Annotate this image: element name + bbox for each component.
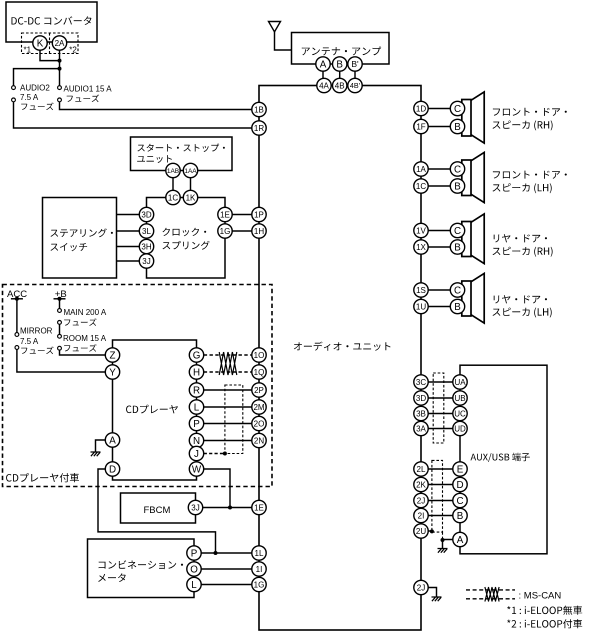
svg-text:Y: Y <box>109 368 116 379</box>
shield dashed box AUX <box>432 460 443 532</box>
connector 3J clock spring <box>139 254 153 268</box>
label rear door speaker LH line1 <box>494 295 547 303</box>
svg-text:1C: 1C <box>168 193 178 202</box>
svg-text:AUDIO1 15 A: AUDIO1 15 A <box>64 85 113 94</box>
svg-text:UD: UD <box>454 424 466 433</box>
connector 1B audio unit left <box>252 102 266 116</box>
label antenna amp <box>302 47 381 56</box>
connector D AUX box <box>453 477 467 491</box>
connector W <box>189 462 203 476</box>
wire 2J to ground <box>428 588 436 598</box>
wire 1AA to 1K <box>190 178 192 191</box>
legend note 1 i-ELOOP <box>507 606 582 615</box>
svg-text:UB: UB <box>454 394 465 403</box>
connector Bp antenna amp <box>348 57 362 71</box>
label start-stop line2 <box>137 155 172 163</box>
connector 3J FBCM <box>188 500 202 514</box>
svg-text:3J: 3J <box>191 503 199 512</box>
svg-text:B: B <box>454 122 461 133</box>
connector L meter <box>187 577 201 591</box>
power node +B <box>54 289 67 301</box>
connector 1R audio unit left <box>252 121 266 135</box>
wire A AUX to ground <box>443 540 453 549</box>
connector P meter <box>187 546 201 560</box>
svg-text:J: J <box>194 449 199 460</box>
connector 2L audio unit right <box>414 462 428 476</box>
svg-text:P: P <box>193 419 200 430</box>
connector B speaker <box>450 240 464 254</box>
label rear door speaker LH line2 <box>493 308 552 318</box>
svg-text:D: D <box>109 465 116 476</box>
junction node branch <box>58 67 62 71</box>
svg-text:1X: 1X <box>416 243 426 252</box>
wire MAIN to ROOM fuse <box>59 324 61 334</box>
connector H <box>189 365 203 379</box>
combination meter box <box>88 539 195 598</box>
junction node shield/A ground <box>441 538 445 542</box>
wire P to 1L <box>201 552 252 554</box>
wire D to combination meter net <box>98 469 216 553</box>
connector 1K clock spring <box>183 190 197 204</box>
connector 3H <box>139 239 153 253</box>
wire 2L to E <box>428 468 453 470</box>
svg-text:P: P <box>191 549 198 560</box>
wire B to 4B <box>339 71 341 78</box>
connector 1F audio unit right <box>414 119 428 133</box>
fuse AUDIO2 7.5A <box>12 86 16 90</box>
connector 1G clock spring <box>218 224 232 238</box>
svg-text:FBCM: FBCM <box>144 505 171 516</box>
svg-text:7.5 A: 7.5 A <box>20 337 39 346</box>
label combination meter line1 <box>99 560 184 569</box>
fuse MIRROR 7.5A <box>15 333 19 337</box>
svg-text:W: W <box>192 465 202 476</box>
connector 1AB <box>166 163 180 177</box>
svg-text:ROOM 15 A: ROOM 15 A <box>63 334 107 343</box>
DC-DC connector dashed outline <box>22 33 79 54</box>
connector O meter <box>187 562 201 576</box>
speaker rear door speaker RH <box>462 214 484 264</box>
connector B antenna amp <box>333 57 347 71</box>
svg-text:2U: 2U <box>416 527 426 536</box>
label fuse MIRROR <box>21 347 53 355</box>
svg-text:3D: 3D <box>416 394 426 403</box>
connector 2N audio unit left <box>252 433 266 447</box>
connector 1C clock spring <box>166 190 180 204</box>
power node ACC <box>7 289 27 301</box>
svg-text:UC: UC <box>454 409 466 418</box>
node 2U shield drain <box>430 529 434 533</box>
connector D CD player <box>105 462 119 476</box>
connector UC AUX box <box>453 406 467 420</box>
wire branch junction to AUDIO2 fuse <box>14 69 60 86</box>
svg-text:C: C <box>456 496 463 507</box>
ground 2J <box>432 597 442 601</box>
connector B speaker <box>450 119 464 133</box>
connector C speaker <box>450 283 464 297</box>
connector UA AUX box <box>453 375 467 389</box>
svg-text:B: B <box>454 243 461 254</box>
junction node D/P/1L <box>214 551 218 555</box>
connector 1E clock spring <box>218 207 232 221</box>
svg-text:Z: Z <box>110 351 116 362</box>
svg-text:B: B <box>457 511 464 522</box>
wire 1E to 1P <box>232 214 252 216</box>
svg-text:C: C <box>454 226 461 237</box>
connector G <box>189 348 203 362</box>
svg-text:1AA: 1AA <box>184 168 197 175</box>
wire 2J to C <box>428 500 453 502</box>
connector 3L <box>139 224 153 238</box>
connector 2I audio unit right <box>414 508 428 522</box>
CD player section dashed border <box>3 285 273 487</box>
wire 1U to speaker B <box>428 306 450 308</box>
connector C AUX box <box>453 493 467 507</box>
svg-text:1A: 1A <box>416 165 426 174</box>
connector 1I audio unit left <box>252 562 266 576</box>
connector Y <box>105 365 119 379</box>
wire P to 2O <box>204 423 252 425</box>
svg-text:2I: 2I <box>418 511 425 520</box>
label fuse MAIN <box>64 318 96 326</box>
wire +B to MAIN fuse <box>59 299 61 309</box>
speaker front door speaker LH <box>462 152 484 202</box>
wire 1V to speaker C <box>428 230 450 232</box>
svg-text:1P: 1P <box>254 210 264 219</box>
label fuse ROOM <box>64 344 96 352</box>
svg-text:1L: 1L <box>255 549 264 558</box>
svg-text:: MS-CAN: : MS-CAN <box>519 590 562 601</box>
connector 2P audio unit left <box>252 383 266 397</box>
svg-text:C: C <box>454 104 461 115</box>
svg-text:2K: 2K <box>416 480 426 489</box>
connector P CD player <box>189 416 203 430</box>
wire 1S to speaker C <box>428 289 450 291</box>
wire H to 1Q MS-CAN <box>204 371 252 373</box>
svg-text:2J: 2J <box>417 583 425 592</box>
connector 4Bp audio unit top <box>348 78 362 92</box>
connector 3A audio unit right <box>414 421 428 435</box>
connector 2J audio unit right <box>414 493 428 507</box>
wire 3C to UA <box>428 381 453 383</box>
wire AUDIO2 fuse to 1R <box>14 102 253 128</box>
svg-text:2A: 2A <box>55 39 65 48</box>
wire shield to ground net <box>442 532 444 540</box>
connector 1L audio unit left <box>252 546 266 560</box>
connector 2O audio unit left <box>252 416 266 430</box>
svg-text:1D: 1D <box>416 104 426 113</box>
svg-text:B: B <box>454 302 461 313</box>
svg-text:1E: 1E <box>254 503 264 512</box>
ground CD player A <box>91 452 101 456</box>
FBCM box <box>121 493 196 523</box>
CD player box <box>113 340 197 480</box>
label steering line2 <box>51 243 88 251</box>
junction node W/3J/1E <box>228 506 232 510</box>
wire 1X to speaker B <box>428 246 450 248</box>
connector 1E audio unit left <box>252 500 266 514</box>
label clock spring line2 <box>163 241 210 250</box>
label front door speaker RH line2 <box>493 120 553 130</box>
connector 1S audio unit right <box>414 283 428 297</box>
legend twisted pair symbol <box>485 587 499 602</box>
wire ACC to MIRROR fuse <box>16 299 18 333</box>
connector 3B audio unit right <box>414 406 428 420</box>
junction node K/2A <box>58 59 62 63</box>
connector 1AA <box>183 163 197 177</box>
label rear door speaker RH line2 <box>493 247 553 257</box>
connector 3C audio unit right <box>414 375 428 389</box>
svg-text:3H: 3H <box>141 242 151 251</box>
DC-DC converter unit box <box>6 2 97 42</box>
svg-text:2M: 2M <box>253 403 264 412</box>
wire steering to 3D <box>117 214 140 216</box>
connector 1C audio unit right <box>414 179 428 193</box>
label front door speaker RH line1 <box>493 108 567 116</box>
wire AUDIO1 fuse to 1B <box>60 102 253 110</box>
connector 2J audio unit bottom <box>414 580 428 594</box>
wire 1D to speaker C <box>428 108 450 110</box>
svg-text:O: O <box>190 565 198 576</box>
speaker front door speaker RH <box>462 92 484 143</box>
steering switch box <box>43 198 117 279</box>
wire MIRROR fuse to Y <box>17 349 105 372</box>
antenna symbol <box>269 22 292 51</box>
svg-text:4B: 4B <box>335 81 345 90</box>
connector 1D audio unit right <box>414 101 428 115</box>
svg-text:UA: UA <box>454 378 466 387</box>
ground AUX A <box>438 549 448 553</box>
label front door speaker LH line2 <box>493 183 552 193</box>
fuse ROOM 15A <box>58 334 62 338</box>
svg-text:1K: 1K <box>186 193 196 202</box>
label AUX/USB terminal <box>471 453 530 462</box>
svg-text:4A: 4A <box>319 81 329 90</box>
svg-text:2N: 2N <box>254 436 264 445</box>
svg-text:2L: 2L <box>417 465 426 474</box>
connector B AUX box <box>453 508 467 522</box>
wire 1AB to 1C <box>172 178 174 191</box>
label CD player section <box>6 473 79 482</box>
wire ROOM fuse to Z <box>60 350 106 355</box>
connector 2U audio unit right <box>414 524 428 538</box>
wire G to 1O MS-CAN <box>204 354 252 356</box>
wire 2U to shield drain <box>428 530 432 532</box>
wire 1G to 1H <box>232 230 252 232</box>
start-stop unit box <box>131 137 233 171</box>
wire steering to 3J <box>117 260 140 262</box>
svg-text:G: G <box>193 351 201 362</box>
svg-text:N: N <box>193 436 200 447</box>
wire Bp to 4Bp <box>354 71 356 78</box>
label fuse AUDIO2 <box>21 103 53 111</box>
wire R to 2P <box>204 389 252 391</box>
svg-text:AUDIO2: AUDIO2 <box>20 83 50 92</box>
svg-text:2J: 2J <box>417 496 425 505</box>
node J shield drain <box>223 452 227 456</box>
svg-text:1Q: 1Q <box>254 368 265 377</box>
label start-stop line1 <box>137 144 225 152</box>
connector 2M audio unit left <box>252 400 266 414</box>
svg-text:MAIN 200 A: MAIN 200 A <box>64 308 107 317</box>
connector 1O audio unit left <box>252 348 266 362</box>
wire steering to 3L <box>117 230 140 232</box>
connector R <box>189 383 203 397</box>
svg-text:3J: 3J <box>142 257 150 266</box>
label audio unit <box>294 342 391 351</box>
connector C speaker <box>450 162 464 176</box>
label DC-DC converter <box>12 16 92 25</box>
wire L to 2M <box>204 406 252 408</box>
connector B speaker <box>450 179 464 193</box>
connector 4B audio unit top <box>333 78 347 92</box>
connector 4A audio unit top <box>317 78 331 92</box>
label fuse AUDIO1 <box>67 95 99 103</box>
svg-text:3C: 3C <box>416 378 426 387</box>
connector 2K audio unit right <box>414 477 428 491</box>
connector Z <box>105 348 119 362</box>
wire 3J to 1E <box>203 507 252 509</box>
svg-text:1B: 1B <box>254 105 264 114</box>
wire pin K down to junction <box>40 50 60 61</box>
legend MS-CAN dashed lines <box>466 589 515 591</box>
svg-text:2O: 2O <box>254 419 265 428</box>
connector 3D <box>139 207 153 221</box>
wire 3D to UB <box>428 397 453 399</box>
svg-text:1I: 1I <box>256 565 263 574</box>
svg-text:1O: 1O <box>254 351 265 360</box>
connector 1Q audio unit left <box>252 365 266 379</box>
connector K <box>33 36 47 50</box>
connector 1P audio unit left <box>252 207 266 221</box>
connector 1G audio unit left <box>252 577 266 591</box>
svg-text:1E: 1E <box>220 210 230 219</box>
connector 2A <box>52 36 66 50</box>
AUX/USB terminal box <box>460 365 547 554</box>
shield dashed box CD <box>225 385 243 454</box>
connector E AUX box <box>453 462 467 476</box>
label combination meter line2 <box>98 573 126 582</box>
svg-text:B: B <box>336 60 343 71</box>
svg-text:H: H <box>193 368 200 379</box>
legend note 2 i-ELOOP <box>507 619 582 628</box>
wire A to ground <box>96 440 106 452</box>
speaker rear door speaker LH <box>462 273 484 323</box>
connector A AUX box <box>453 532 467 546</box>
connector UD AUX box <box>453 421 467 435</box>
fuse MAIN 200A <box>58 309 62 313</box>
wire J to shield drain <box>204 453 225 455</box>
connector J <box>189 446 203 460</box>
connector 1U audio unit right <box>414 299 428 313</box>
connector A antenna amp <box>316 57 330 71</box>
svg-text:D: D <box>456 480 463 491</box>
svg-text:*1: *1 <box>24 46 32 55</box>
wire N to 2N <box>204 440 252 442</box>
svg-text:R: R <box>193 386 200 397</box>
wire O to 1I <box>201 568 252 570</box>
wire W down to FBCM net <box>204 469 230 508</box>
shield dashed box USB <box>433 373 444 443</box>
wire 1A to speaker C <box>428 168 450 170</box>
svg-text:E: E <box>457 465 464 476</box>
connector 1X audio unit right <box>414 240 428 254</box>
label clock spring line1 <box>163 228 207 237</box>
connector A CD player <box>105 433 119 447</box>
svg-text:MIRROR: MIRROR <box>20 327 53 336</box>
svg-text:C: C <box>454 286 461 297</box>
antenna amplifier box <box>292 33 390 65</box>
wire steering to 3H <box>117 246 140 248</box>
connector 1V audio unit right <box>414 223 428 237</box>
svg-text:L: L <box>194 403 200 414</box>
svg-text:L: L <box>191 580 197 591</box>
label steering line1 <box>51 228 113 237</box>
svg-text:1H: 1H <box>254 227 264 236</box>
svg-text:A: A <box>320 60 327 71</box>
svg-text:K: K <box>37 39 44 50</box>
connector 3D audio unit right <box>414 391 428 405</box>
svg-text:1R: 1R <box>254 124 264 133</box>
svg-text:C: C <box>454 165 461 176</box>
wire 2K to D <box>428 484 453 486</box>
wire L to 1G <box>201 584 252 586</box>
label front door speaker LH line1 <box>493 171 567 179</box>
svg-text:1S: 1S <box>416 286 426 295</box>
svg-text:1AB: 1AB <box>167 168 179 175</box>
svg-text:3A: 3A <box>416 424 426 433</box>
twisted pair symbol MS-CAN <box>219 352 237 375</box>
wire 1C to speaker B <box>428 185 450 187</box>
svg-text:3D: 3D <box>141 210 151 219</box>
svg-text:7.5 A: 7.5 A <box>20 93 39 102</box>
svg-text:B: B <box>454 182 461 193</box>
connector 1A audio unit right <box>414 162 428 176</box>
svg-text:A: A <box>109 436 116 447</box>
wire 3B to UC <box>428 413 453 415</box>
wire 2I to B <box>428 515 453 517</box>
svg-text:3B: 3B <box>416 409 426 418</box>
wire A to 4A <box>322 71 324 78</box>
fuse AUDIO1 15A <box>58 86 62 90</box>
svg-text:*2: *2 <box>69 46 77 55</box>
label CD player <box>126 405 178 414</box>
audio unit box <box>259 86 421 631</box>
svg-text:4B': 4B' <box>350 81 361 90</box>
svg-text:3L: 3L <box>142 227 151 236</box>
connector B speaker <box>450 299 464 313</box>
clock spring box <box>147 198 226 279</box>
svg-text:2P: 2P <box>254 386 264 395</box>
connector N <box>189 433 203 447</box>
connector UB AUX box <box>453 391 467 405</box>
connector C speaker <box>450 101 464 115</box>
wire 3A to UD <box>428 428 453 430</box>
connector L CD player <box>189 400 203 414</box>
svg-text:1U: 1U <box>416 302 426 311</box>
svg-text:B': B' <box>351 59 359 69</box>
wire 1F to speaker B <box>428 126 450 128</box>
label rear door speaker RH line1 <box>494 234 547 242</box>
wire pin 2A down to AUDIO1 fuse <box>59 50 61 86</box>
svg-text:1C: 1C <box>416 182 426 191</box>
svg-text:A: A <box>457 535 464 546</box>
svg-text:1F: 1F <box>416 122 425 131</box>
connector C speaker <box>450 223 464 237</box>
svg-text:1G: 1G <box>220 227 231 236</box>
svg-text:1G: 1G <box>254 580 265 589</box>
svg-text:1V: 1V <box>416 226 426 235</box>
